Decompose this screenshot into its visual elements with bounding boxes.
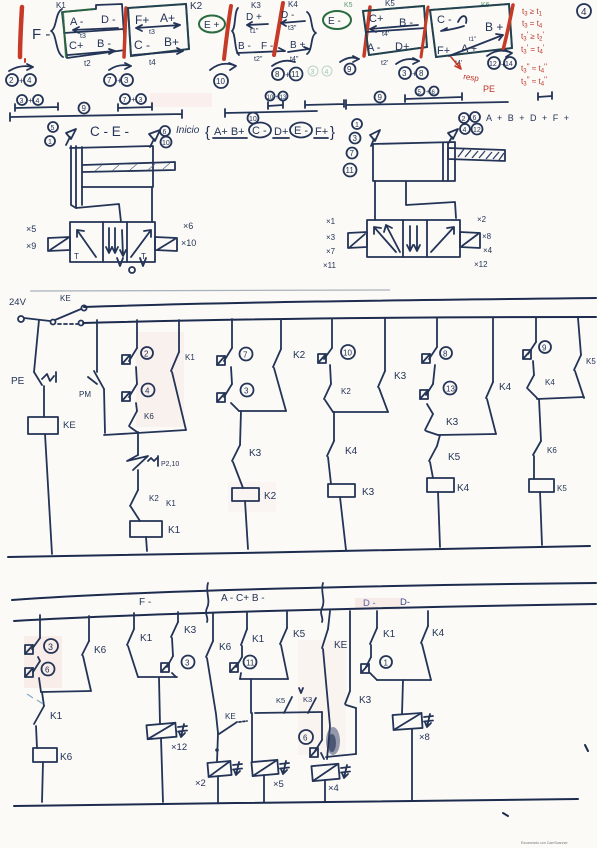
- svg-text:t2: t2: [84, 59, 91, 68]
- svg-text:K1: K1: [168, 525, 181, 536]
- svg-text:t3: t3: [149, 29, 155, 36]
- svg-text:KE: KE: [63, 420, 76, 431]
- svg-text:3: 3: [48, 642, 53, 652]
- svg-text:3: 3: [20, 98, 24, 105]
- svg-text:3: 3: [124, 76, 129, 85]
- svg-text:t1'': t1'': [469, 37, 476, 43]
- svg-text:×11: ×11: [323, 261, 337, 270]
- svg-text:K4: K4: [345, 446, 358, 457]
- svg-text:24V: 24V: [9, 297, 27, 308]
- svg-text:K2: K2: [264, 491, 277, 502]
- svg-text:K4: K4: [457, 483, 470, 494]
- svg-text:C+: C+: [69, 40, 83, 52]
- svg-text:4: 4: [36, 98, 40, 105]
- svg-text:B +: B +: [485, 20, 503, 34]
- svg-text:K3: K3: [249, 448, 262, 459]
- svg-text:2: 2: [9, 76, 14, 85]
- svg-text:K2: K2: [293, 350, 306, 361]
- svg-text:K3: K3: [251, 1, 261, 10]
- svg-text:K1: K1: [166, 499, 176, 508]
- svg-text:K2: K2: [341, 387, 351, 396]
- svg-text:K1: K1: [50, 711, 63, 722]
- svg-text:K6: K6: [60, 752, 73, 763]
- svg-text:D -: D -: [101, 14, 116, 26]
- svg-text:D +: D +: [246, 12, 262, 23]
- svg-text:11: 11: [246, 659, 255, 668]
- svg-text:K5: K5: [448, 452, 461, 463]
- svg-text:9: 9: [378, 93, 383, 102]
- svg-text:9: 9: [542, 344, 547, 353]
- svg-text:A+ B+: A+ B+: [214, 126, 245, 138]
- svg-text:4: 4: [325, 69, 329, 76]
- svg-text:×8: ×8: [419, 732, 430, 743]
- svg-text:D+: D+: [395, 41, 409, 53]
- svg-text:7: 7: [123, 97, 127, 104]
- svg-text:A+: A+: [160, 11, 175, 25]
- svg-text:7: 7: [350, 149, 355, 158]
- svg-text:K3: K3: [303, 695, 312, 704]
- svg-text:K2: K2: [190, 1, 203, 12]
- svg-text:PE: PE: [483, 84, 495, 94]
- svg-text:K5: K5: [293, 629, 306, 640]
- svg-text:5: 5: [51, 125, 55, 132]
- svg-text:4: 4: [27, 76, 32, 85]
- svg-text:K1: K1: [185, 353, 195, 362]
- svg-text:12: 12: [489, 61, 497, 68]
- svg-text:D+: D+: [274, 126, 288, 138]
- svg-text:1: 1: [355, 122, 359, 129]
- svg-text:{: {: [205, 124, 210, 141]
- svg-text:K4: K4: [432, 628, 445, 639]
- svg-text:C+: C+: [369, 13, 383, 25]
- svg-text:×4: ×4: [483, 246, 493, 255]
- svg-text:K6: K6: [219, 642, 232, 653]
- svg-text:6: 6: [303, 734, 308, 743]
- svg-text:C -: C -: [437, 14, 452, 26]
- svg-text:4: 4: [145, 387, 150, 396]
- svg-text:3: 3: [353, 134, 358, 143]
- svg-text:K5: K5: [586, 357, 596, 366]
- svg-text:t3'': t3'': [288, 25, 297, 32]
- svg-text:PM: PM: [79, 390, 91, 399]
- svg-text:8: 8: [419, 69, 424, 78]
- svg-text:7: 7: [107, 76, 112, 85]
- svg-text:4: 4: [581, 7, 587, 18]
- svg-text:×7: ×7: [326, 247, 336, 256]
- svg-text:E -: E -: [294, 125, 308, 137]
- svg-text:t1'': t1'': [250, 28, 259, 35]
- svg-text:×12: ×12: [474, 260, 488, 269]
- svg-text:×2: ×2: [477, 215, 487, 224]
- svg-text:K1: K1: [140, 633, 153, 644]
- svg-text:B -: B -: [238, 41, 251, 52]
- svg-text:KE: KE: [334, 640, 348, 651]
- svg-text:×4: ×4: [328, 783, 339, 794]
- svg-text:K6: K6: [94, 645, 107, 656]
- svg-text:×1: ×1: [326, 217, 336, 226]
- svg-text:t2'': t2'': [254, 56, 263, 63]
- svg-text:3: 3: [244, 387, 249, 396]
- svg-text:K1: K1: [252, 634, 265, 645]
- svg-text:3: 3: [311, 69, 315, 76]
- svg-text:13: 13: [446, 385, 455, 394]
- svg-text:×12: ×12: [171, 742, 187, 753]
- svg-text:K3: K3: [184, 625, 197, 636]
- svg-text:K5: K5: [276, 696, 285, 705]
- svg-text:4: 4: [463, 127, 467, 134]
- svg-text:1: 1: [48, 139, 52, 146]
- svg-text:2: 2: [144, 350, 149, 359]
- svg-text:K2: K2: [149, 494, 159, 503]
- svg-text:K4: K4: [499, 382, 512, 393]
- svg-text:10: 10: [162, 140, 170, 147]
- svg-text:3: 3: [139, 97, 143, 104]
- svg-text:E +: E +: [204, 20, 219, 31]
- svg-text:D-: D-: [400, 597, 410, 608]
- svg-text:3: 3: [185, 659, 190, 668]
- svg-text:×5: ×5: [26, 224, 36, 234]
- svg-text:K1: K1: [383, 629, 396, 640]
- svg-text:F -: F -: [32, 26, 50, 43]
- svg-text:6: 6: [163, 129, 167, 136]
- svg-text:12: 12: [473, 127, 481, 134]
- svg-text:6: 6: [473, 115, 477, 122]
- svg-text:t4: t4: [149, 58, 156, 67]
- svg-text:K4: K4: [288, 0, 298, 9]
- svg-text:K3: K3: [446, 417, 459, 428]
- svg-text:×10: ×10: [181, 238, 196, 248]
- svg-text:×6: ×6: [183, 221, 193, 231]
- svg-text:10: 10: [343, 349, 352, 358]
- svg-text:F+: F+: [437, 45, 450, 57]
- svg-text:t4': t4': [382, 31, 389, 38]
- svg-text:F+: F+: [315, 126, 328, 138]
- svg-text:11: 11: [291, 70, 300, 79]
- svg-text:6: 6: [45, 666, 50, 675]
- svg-text:×8: ×8: [482, 232, 492, 241]
- svg-text:D -: D -: [281, 10, 294, 21]
- svg-text:t2': t2': [381, 60, 388, 67]
- svg-text:A -: A -: [367, 42, 381, 54]
- svg-text:8: 8: [275, 70, 280, 79]
- svg-text:B+: B+: [164, 35, 179, 49]
- svg-text:D -: D -: [363, 598, 376, 609]
- svg-text:×5: ×5: [273, 779, 284, 790]
- svg-text:3: 3: [402, 69, 407, 78]
- svg-text:K6: K6: [144, 412, 154, 421]
- svg-text:C -: C -: [252, 125, 267, 137]
- svg-text:K6: K6: [547, 446, 557, 455]
- svg-text:×3: ×3: [326, 233, 336, 242]
- svg-text:8: 8: [443, 350, 448, 359]
- svg-text:K5: K5: [557, 484, 567, 493]
- svg-text:}: }: [330, 124, 335, 141]
- svg-text:10: 10: [267, 95, 274, 101]
- svg-text:F -: F -: [261, 41, 273, 52]
- svg-text:Inicio: Inicio: [176, 125, 200, 136]
- svg-text:10: 10: [249, 116, 257, 123]
- svg-text:K4: K4: [545, 378, 555, 387]
- svg-text:7: 7: [243, 351, 248, 360]
- svg-text:A -: A -: [70, 16, 84, 28]
- svg-text:K1: K1: [56, 1, 66, 10]
- svg-text:K5: K5: [344, 2, 353, 9]
- svg-text:E -: E -: [328, 16, 341, 27]
- svg-text:A + B + D + F +: A + B + D + F +: [486, 113, 571, 123]
- svg-text:PE: PE: [11, 376, 25, 387]
- svg-text:10: 10: [216, 77, 225, 86]
- svg-text:t3: t3: [80, 33, 86, 40]
- svg-text:11: 11: [346, 166, 355, 175]
- svg-text:14: 14: [505, 61, 513, 68]
- svg-text:F -: F -: [139, 597, 151, 608]
- svg-text:1: 1: [384, 659, 389, 668]
- svg-text:K3: K3: [394, 371, 407, 382]
- svg-text:Escaneado con CamScanner: Escaneado con CamScanner: [521, 841, 569, 845]
- svg-text:9: 9: [82, 104, 87, 113]
- svg-text:A - C+ B -: A - C+ B -: [221, 593, 265, 604]
- svg-text:K3: K3: [362, 487, 375, 498]
- svg-text:C - E -: C - E -: [90, 124, 129, 139]
- svg-text:P2,10: P2,10: [161, 461, 179, 468]
- svg-text:×9: ×9: [26, 241, 36, 251]
- svg-text:KE: KE: [60, 294, 71, 303]
- svg-text:2: 2: [462, 116, 466, 123]
- svg-text:KE: KE: [225, 712, 236, 721]
- svg-text:9: 9: [347, 65, 352, 74]
- svg-text:C -: C -: [134, 38, 150, 52]
- svg-text:K3: K3: [359, 695, 372, 706]
- svg-text:K5: K5: [385, 0, 395, 8]
- svg-text:13: 13: [280, 95, 287, 101]
- svg-text:T: T: [74, 252, 79, 261]
- svg-text:×2: ×2: [195, 778, 206, 789]
